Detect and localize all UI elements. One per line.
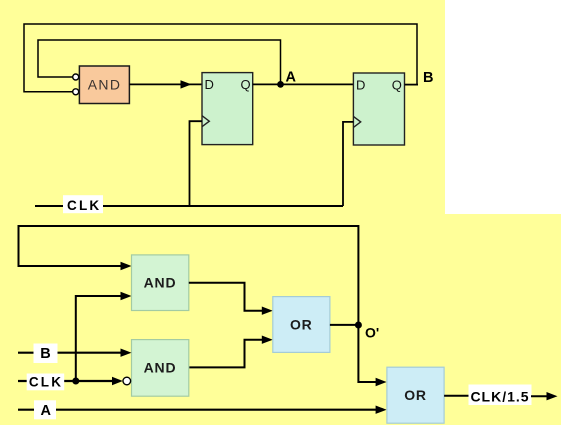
B label (34, 344, 58, 364)
wire: Q2 stub to B riser (405, 84, 419, 86)
wire: clock riser to FF1 (190, 121, 203, 206)
wire: CLK/1.5 output arrow (531, 395, 549, 397)
D flip-flop U3 (353, 73, 404, 145)
wire: Q1 to D2 (253, 83, 354, 85)
svg-text:CLK: CLK (29, 375, 63, 390)
CLK/1.5 label (469, 385, 532, 406)
svg-text:CLK: CLK (67, 198, 101, 213)
node A junction dot (277, 81, 284, 88)
AND gate U5 (bottom lower) (132, 340, 189, 397)
svg-text:D: D (356, 77, 365, 92)
OR gate U7 (387, 367, 444, 423)
bottom yellow panel (0, 214, 561, 425)
clock triangle FF2 (353, 116, 360, 127)
CLK label (top) (63, 195, 103, 213)
wire: A input line to OR2 input 2 (18, 409, 378, 411)
clock triangle FF1 (202, 116, 209, 127)
CLK label (bottom) (27, 374, 64, 391)
arrowhead into AND1 input 2 (121, 292, 132, 300)
A label (34, 400, 56, 419)
wire: CLK distribution (top section) (35, 205, 343, 207)
wire: CLK input line (bottom) (18, 380, 120, 382)
svg-text:Q: Q (392, 77, 402, 92)
arrowhead into OR1 input 2 (262, 336, 273, 344)
D flip-flop U2 (202, 73, 253, 145)
wire: B input line to AND2 input 1 (18, 352, 123, 354)
svg-text:D: D (205, 77, 214, 92)
svg-text:B: B (423, 70, 433, 86)
wire: OR2 output to CLK/1.5 (444, 395, 470, 397)
svg-text:AND: AND (144, 359, 177, 375)
svg-text:O': O' (365, 325, 379, 341)
wire: O' feedback loop to AND1 input 1 (19, 226, 359, 325)
wire: OR1 output to node O' (330, 324, 359, 326)
AND gate U4 (bottom upper) (132, 255, 189, 311)
svg-text:OR: OR (290, 316, 313, 332)
inverter bubble (AND lower input) (73, 89, 79, 95)
wire: clock riser to FF2 (343, 122, 353, 206)
wire: AND output to D of FF1 (129, 83, 202, 85)
inverter bubble (AND upper input) (73, 74, 79, 80)
arrowhead into OR2 input 2 (376, 406, 387, 414)
wire: feedback A loop (node A -> inner top -> AND upper input) (38, 40, 281, 84)
wire: O' down to OR2 input 1 (358, 325, 378, 382)
svg-text:Q: Q (241, 77, 251, 92)
arrowhead into OR2 input 1 (376, 378, 387, 386)
svg-text:AND: AND (144, 274, 177, 290)
CLK junction dot (72, 378, 79, 385)
wire: AND2 output to OR1 input 2 (189, 340, 264, 368)
AND gate U1 (top, peach) (79, 66, 129, 104)
svg-text:CLK/1.5: CLK/1.5 (470, 388, 529, 404)
arrowhead into FF1 D (181, 80, 192, 88)
arrowhead into AND2 input 2 bubble (112, 377, 123, 385)
arrowhead into OR1 input 1 (262, 307, 273, 315)
svg-text:A: A (41, 403, 52, 419)
arrowhead output (547, 392, 558, 400)
svg-text:B: B (40, 346, 50, 362)
wire: AND1 output to OR1 input 1 (189, 283, 264, 311)
top yellow panel (0, 0, 445, 214)
wire: feedback B loop (Q2 -> top -> AND lower input) (24, 24, 417, 92)
svg-text:AND: AND (88, 77, 121, 93)
arrowhead into AND1 input 1 (121, 262, 132, 270)
svg-text:OR: OR (404, 387, 427, 403)
node O' junction dot (355, 322, 362, 329)
svg-text:A: A (286, 70, 297, 86)
wire: CLK branch up to AND1 input 2 (76, 296, 123, 381)
arrowhead into AND2 input 1 (121, 349, 132, 357)
inverter bubble at AND2 input 2 (123, 377, 131, 385)
OR gate U6 (273, 297, 330, 353)
